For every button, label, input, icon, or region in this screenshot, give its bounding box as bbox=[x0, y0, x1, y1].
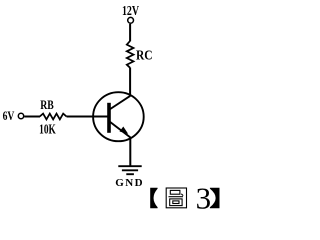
svg-text:12V: 12V bbox=[122, 2, 139, 18]
svg-text:RB: RB bbox=[40, 99, 54, 113]
svg-text:RC: RC bbox=[136, 47, 153, 62]
svg-text:10K: 10K bbox=[39, 120, 56, 136]
svg-text:6V: 6V bbox=[3, 110, 15, 124]
svg-text:3: 3 bbox=[196, 180, 212, 215]
svg-text:GND: GND bbox=[115, 177, 144, 189]
